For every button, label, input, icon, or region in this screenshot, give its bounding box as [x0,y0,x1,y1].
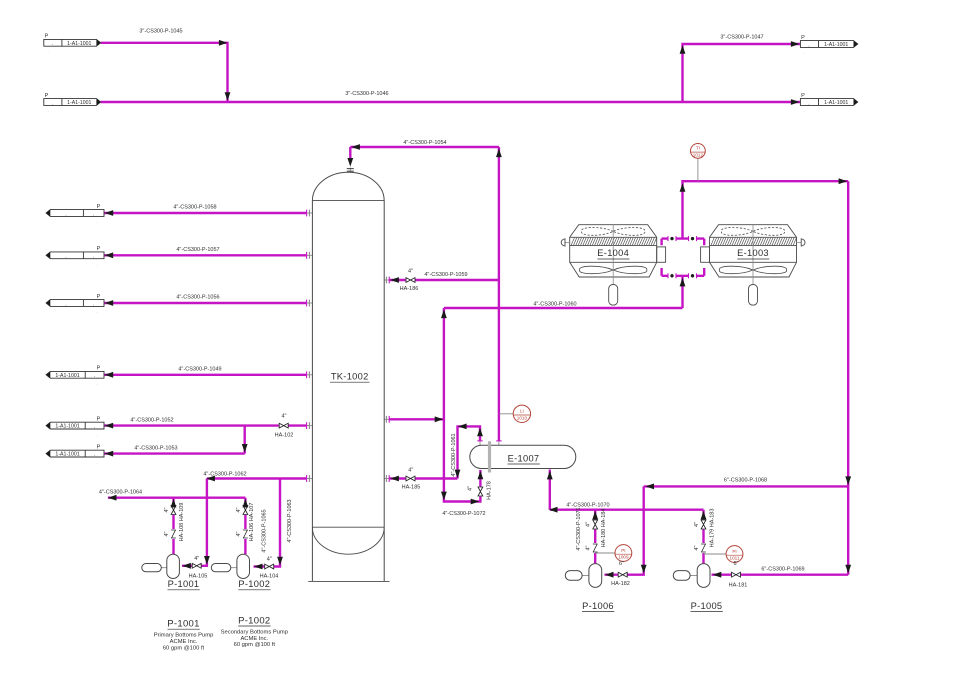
svg-text:P-1005: P-1005 [691,601,723,611]
svg-text:E-1007: E-1007 [508,453,540,463]
svg-text:P: P [45,93,49,99]
svg-text:4"-CS300-P-1054: 4"-CS300-P-1054 [403,140,446,146]
svg-text:4": 4" [236,531,242,536]
svg-text:.: . [94,424,95,430]
svg-text:1011: 1011 [730,556,740,561]
svg-text:HA-178: HA-178 [487,481,493,500]
svg-text:.: . [47,49,48,54]
svg-text:TI: TI [696,146,700,151]
svg-text:.: . [47,108,48,113]
svg-text:1012: 1012 [693,153,704,158]
svg-text:HA-102: HA-102 [275,433,294,439]
svg-text:HA-104: HA-104 [260,574,279,580]
svg-text:1-A1-1001: 1-A1-1001 [824,100,848,106]
svg-text:P: P [97,246,101,252]
svg-text:.: . [65,301,66,307]
svg-text:4"-CS300-P-1060: 4"-CS300-P-1060 [533,301,576,307]
svg-text:4": 4" [408,269,413,275]
svg-text:P: P [801,93,805,99]
svg-text:4": 4" [694,545,700,550]
svg-text:P: P [45,34,49,40]
svg-text:1009: 1009 [618,555,629,560]
svg-text:4": 4" [267,557,272,563]
svg-text:PI: PI [732,549,736,554]
svg-text:Primary Bottoms Pump: Primary Bottoms Pump [154,633,214,639]
svg-text:4": 4" [194,556,199,562]
svg-text:.: . [96,432,97,437]
svg-text:4": 4" [281,414,286,420]
svg-text:.: . [96,460,97,465]
svg-text:1-A1-1001: 1-A1-1001 [824,42,848,48]
svg-text:4": 4" [585,545,591,550]
svg-text:1-A1-1001: 1-A1-1001 [55,373,79,379]
svg-text:4": 4" [164,507,170,512]
svg-text:TK-1002: TK-1002 [331,372,369,382]
svg-text:Secondary Bottoms Pump: Secondary Bottoms Pump [221,630,288,636]
svg-text:6"-CS300-P-1068: 6"-CS300-P-1068 [724,478,767,484]
svg-text:4"-CS300-P-1071: 4"-CS300-P-1071 [576,507,582,550]
svg-text:6"-CS300-P-1069: 6"-CS300-P-1069 [761,567,804,573]
svg-text:HA-181: HA-181 [729,583,748,589]
svg-text:LI: LI [520,409,524,414]
svg-text:P: P [97,444,101,450]
svg-text:60 gpm @100 ft: 60 gpm @100 ft [234,642,276,648]
svg-text:HA-180 HA-184: HA-180 HA-184 [601,509,607,548]
svg-text:4"-CS300-P-1065: 4"-CS300-P-1065 [262,509,268,552]
svg-text:P-1002: P-1002 [238,579,270,589]
svg-text:4"-CS300-P-1072: 4"-CS300-P-1072 [442,511,485,517]
svg-text:.: . [96,309,97,314]
svg-text:4"-CS300-P-1061: 4"-CS300-P-1061 [451,433,457,476]
svg-text:4": 4" [585,522,591,527]
svg-text:4": 4" [408,468,413,474]
svg-text:3"-CS300-P-1047: 3"-CS300-P-1047 [720,35,763,41]
svg-text:.: . [52,41,53,47]
svg-text:1-A1-1001: 1-A1-1001 [67,100,91,106]
svg-text:P-1001: P-1001 [167,619,199,630]
svg-text:4"-CS300-P-1059: 4"-CS300-P-1059 [424,272,467,278]
svg-text:4": 4" [468,486,474,491]
svg-text:4"-CS300-P-1064: 4"-CS300-P-1064 [99,489,142,495]
svg-text:ACME Inc.: ACME Inc. [170,639,198,645]
svg-text:4": 4" [236,507,242,512]
svg-text:1-A1-1001: 1-A1-1001 [55,452,79,458]
svg-text:P: P [801,35,805,41]
svg-text:P: P [97,204,101,210]
svg-text:4"-CS300-P-1052: 4"-CS300-P-1052 [130,417,173,423]
svg-text:HA-108 HA-109: HA-108 HA-109 [179,503,185,542]
svg-text:ACME Inc.: ACME Inc. [240,636,268,642]
svg-text:.: . [808,42,809,48]
svg-text:.: . [65,211,66,217]
svg-text:.: . [93,254,94,260]
svg-text:1-A1-1001: 1-A1-1001 [55,424,79,430]
svg-text:1010: 1010 [517,415,528,420]
svg-text:4"-CS300-P-1062: 4"-CS300-P-1062 [203,472,246,478]
svg-text:.: . [93,301,94,307]
svg-text:4"-CS300-P-1056: 4"-CS300-P-1056 [176,294,219,300]
svg-text:P-1006: P-1006 [582,601,614,611]
svg-text:.: . [96,261,97,266]
svg-text:E-1003: E-1003 [737,248,769,258]
svg-text:4"-CS300-P-1063: 4"-CS300-P-1063 [287,499,293,542]
svg-text:.: . [65,254,66,260]
svg-text:P-1001: P-1001 [168,579,200,589]
svg-text:4"-CS300-P-1070: 4"-CS300-P-1070 [566,503,609,509]
svg-text:4"-CS300-P-1053: 4"-CS300-P-1053 [134,445,177,451]
svg-text:P: P [97,294,101,300]
svg-text:.: . [93,211,94,217]
svg-text:PI: PI [621,548,625,553]
svg-text:HA-106 HA-107: HA-106 HA-107 [249,503,255,542]
svg-text:P-1002: P-1002 [238,615,270,626]
svg-text:4"-CS300-P-1058: 4"-CS300-P-1058 [173,205,216,211]
svg-text:.: . [96,219,97,224]
svg-text:6": 6" [619,561,624,567]
svg-text:HA-185: HA-185 [402,485,421,491]
svg-text:3"-CS300-P-1046: 3"-CS300-P-1046 [345,91,388,97]
svg-text:HA-105: HA-105 [189,574,208,580]
svg-text:6": 6" [733,561,738,567]
svg-text:1-A1-1001: 1-A1-1001 [67,41,91,47]
svg-text:4": 4" [164,531,170,536]
svg-text:.: . [94,452,95,458]
svg-text:E-1004: E-1004 [597,248,629,258]
svg-text:.: . [96,381,97,386]
svg-text:.: . [52,100,53,106]
svg-text:.: . [803,108,804,113]
svg-text:P: P [97,366,101,372]
svg-text:HA-182: HA-182 [611,581,630,587]
svg-text:HA-179 HA-183: HA-179 HA-183 [710,509,716,548]
svg-text:P: P [97,416,101,422]
svg-text:4"-CS300-P-1049: 4"-CS300-P-1049 [178,367,221,373]
svg-text:.: . [808,100,809,106]
svg-text:3"-CS300-P-1045: 3"-CS300-P-1045 [139,29,182,35]
svg-text:.: . [803,50,804,55]
svg-text:60 gpm @100 ft: 60 gpm @100 ft [163,646,205,652]
svg-text:HA-186: HA-186 [400,286,419,292]
svg-text:4"-CS300-P-1057: 4"-CS300-P-1057 [176,247,219,253]
svg-text:.: . [94,373,95,379]
svg-text:4": 4" [694,522,700,527]
